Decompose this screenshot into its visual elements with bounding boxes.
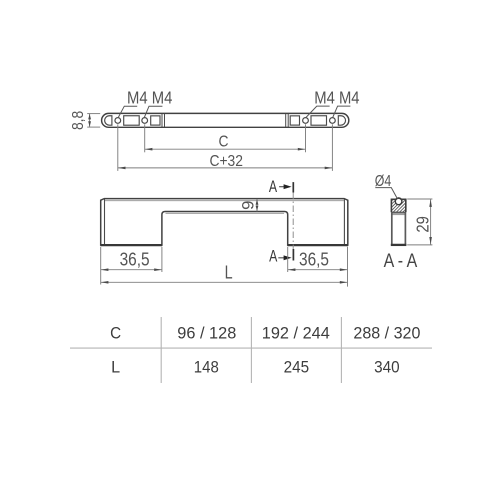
right slot rectangle bbox=[311, 116, 327, 125]
dimension 29 extension lines bbox=[407, 198, 432, 200]
dimension 8,8 extension lines bbox=[87, 113, 100, 115]
front view right cap line bbox=[343, 199, 345, 245]
svg-text:245: 245 bbox=[284, 358, 310, 377]
dimension 29 line with arrows bbox=[430, 199, 432, 245]
dimension 36,5 right line with arrows bbox=[288, 269, 348, 271]
svg-text:C: C bbox=[110, 324, 121, 343]
leader to left outer M4 hole bbox=[118, 106, 137, 117]
front view bar underside inner line bbox=[166, 212, 285, 214]
left square hole bbox=[151, 116, 160, 125]
dimension L line with arrows bbox=[101, 281, 348, 283]
dimension 36,5 right extension lines bbox=[287, 247, 289, 272]
svg-text:L: L bbox=[111, 358, 120, 377]
front view foot bottom edges (thick) bbox=[101, 244, 162, 246]
section A-A screw hole circle Ø4 bbox=[395, 198, 402, 205]
dimension 9 line with arrows bbox=[256, 199, 258, 212]
leader to right inner M4 hole bbox=[306, 106, 330, 117]
top view right end cap insert bbox=[338, 116, 345, 125]
table horizontal rule bbox=[70, 347, 432, 349]
dimension C+32 extension lines bbox=[117, 124, 119, 171]
hole M4 right inner bbox=[303, 118, 309, 124]
top view left end cap insert bbox=[105, 116, 112, 125]
svg-text:36,5: 36,5 bbox=[299, 250, 329, 270]
front view left cap line bbox=[104, 199, 106, 245]
left end-cap edge lines bbox=[161, 114, 163, 127]
svg-text:A: A bbox=[269, 178, 277, 196]
top view outer profile (pill outline) bbox=[102, 113, 349, 127]
right square hole bbox=[290, 116, 299, 125]
table vertical rule 1 bbox=[160, 317, 162, 383]
table vertical rule 3 bbox=[340, 317, 342, 383]
svg-text:L: L bbox=[225, 263, 233, 283]
leader to right outer M4 hole bbox=[333, 106, 351, 117]
leader to left inner M4 hole bbox=[144, 106, 162, 117]
svg-text:A - A: A - A bbox=[384, 251, 418, 272]
section A-A lower body bbox=[391, 212, 393, 245]
svg-text:96 / 128: 96 / 128 bbox=[177, 324, 236, 343]
svg-text:148: 148 bbox=[194, 358, 219, 377]
svg-text:M4 M4: M4 M4 bbox=[127, 88, 172, 108]
hole M4 left inner bbox=[142, 118, 148, 124]
section A-A block outline bbox=[391, 198, 405, 212]
svg-text:192 / 244: 192 / 244 bbox=[262, 324, 330, 343]
right end-cap edge lines bbox=[285, 114, 287, 127]
front view top inner line bbox=[105, 200, 344, 202]
dimension 36,5 left extension lines bbox=[100, 247, 102, 285]
left slot rectangle bbox=[124, 116, 140, 125]
section line A-A (dash-dot) bbox=[292, 193, 294, 250]
section A-A gray band bbox=[391, 213, 405, 215]
dimension C line with arrows bbox=[145, 148, 306, 150]
svg-text:M4 M4: M4 M4 bbox=[314, 88, 359, 108]
dimension 8,8 line with arrows bbox=[89, 114, 91, 128]
hole M4 left outer bbox=[115, 118, 121, 124]
svg-text:9: 9 bbox=[239, 201, 258, 210]
dimension C extension lines bbox=[144, 124, 146, 152]
table vertical rule 2 bbox=[250, 317, 252, 383]
svg-text:288 / 320: 288 / 320 bbox=[353, 324, 420, 343]
front view outline bbox=[101, 199, 348, 246]
svg-text:C: C bbox=[219, 134, 229, 151]
svg-text:29: 29 bbox=[412, 216, 432, 233]
svg-text:340: 340 bbox=[374, 358, 400, 377]
svg-text:A: A bbox=[269, 248, 277, 266]
svg-text:C+32: C+32 bbox=[209, 153, 243, 170]
dimension 36,5 left line with arrows bbox=[101, 269, 162, 271]
svg-text:8,8: 8,8 bbox=[70, 111, 87, 130]
svg-text:36,5: 36,5 bbox=[120, 250, 150, 270]
dimension C+32 line with arrows bbox=[118, 167, 333, 169]
hole M4 right outer bbox=[330, 118, 336, 124]
